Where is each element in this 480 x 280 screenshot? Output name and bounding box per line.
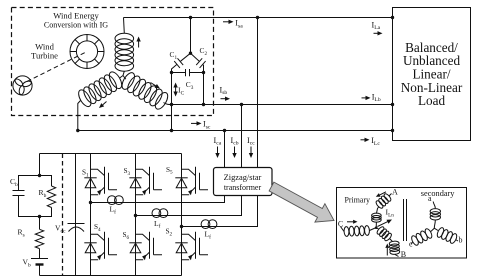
node: right leg on phase b <box>202 103 205 106</box>
wire: phase b line <box>172 104 393 106</box>
svg-text:a: a <box>428 194 432 203</box>
svg-text:C: C <box>338 219 343 228</box>
secondary winding branch c <box>410 228 434 247</box>
capacitor Cb <box>13 176 40 217</box>
arrow into C branch <box>347 220 358 224</box>
node: leg2 midpoint <box>134 214 137 217</box>
inductor Lf (leg 1) <box>108 196 124 205</box>
node: load phase b <box>391 103 394 106</box>
node Icb tap <box>240 103 243 106</box>
wire: inverter leg 3 <box>181 154 183 276</box>
svg-text:Vdc: Vdc <box>55 224 66 235</box>
svg-text:Icb: Icb <box>231 136 239 147</box>
svg-text:S3: S3 <box>124 167 131 177</box>
wire: DC bus top rail <box>40 153 182 155</box>
label+arrow Icb <box>231 136 239 158</box>
node: left leg on phase c <box>170 129 173 132</box>
switch S4 (IGBT with diode) <box>84 232 117 260</box>
node: load phase c <box>391 129 394 132</box>
svg-text:B: B <box>401 250 406 259</box>
node: cap bank left <box>170 71 173 74</box>
node: leg3 midpoint <box>180 225 183 228</box>
switch S3 (IGBT with diode) <box>129 167 162 195</box>
primary winding branch A <box>372 193 393 228</box>
wire: DC bus bottom rail <box>40 275 182 277</box>
svg-text:A: A <box>392 188 398 197</box>
svg-text:Conversion with IG: Conversion with IG <box>44 21 108 30</box>
wire: Ica tap (phase c to transformer) <box>224 131 226 168</box>
svg-text:Lf: Lf <box>205 230 212 241</box>
node Ica tap <box>223 129 226 132</box>
svg-text:Lf: Lf <box>110 205 117 216</box>
svg-text:ILn: ILn <box>386 208 395 219</box>
svg-text:Primary: Primary <box>345 195 370 204</box>
svg-text:C2: C2 <box>200 46 208 57</box>
switch S5 (IGBT with diode) <box>175 167 208 195</box>
label: Wind Turbine <box>31 42 58 61</box>
svg-text:ILa: ILa <box>372 20 381 31</box>
arrow+label Isa <box>223 19 243 30</box>
arrow on phase-a winding <box>136 37 140 48</box>
wire: DC link vertical <box>75 154 77 276</box>
switch S1 (IGBT with diode) <box>84 167 117 195</box>
svg-text:ILc: ILc <box>371 136 380 147</box>
capacitor C2 (right diagonal) <box>191 53 206 72</box>
svg-text:Isa: Isa <box>235 19 243 30</box>
node: cap bank right <box>202 71 205 74</box>
node: load phase a <box>391 16 394 19</box>
wire: inverter leg 1 <box>90 154 92 276</box>
label: Wind Energy Conversion with IG <box>44 11 108 30</box>
svg-text:Turbine: Turbine <box>31 51 58 61</box>
svg-text:Isb: Isb <box>220 85 228 96</box>
svg-text:Wind Energy: Wind Energy <box>53 11 99 21</box>
dashed box: wind energy conversion system <box>12 8 214 116</box>
induction generator IG (slip-ring machine symbol) <box>70 35 104 69</box>
node: phase c start <box>76 129 79 132</box>
svg-text:Zigzag/star: Zigzag/star <box>224 173 262 182</box>
primary winding branch B <box>376 226 400 257</box>
svg-text:transformer: transformer <box>224 183 262 192</box>
node: cap bank top <box>189 52 192 55</box>
node: battery branch mid <box>38 215 41 218</box>
svg-text:Vb: Vb <box>23 258 31 269</box>
wire: Icc tap (phase a to transformer) <box>257 18 259 168</box>
switch S6 (IGBT with diode) <box>129 232 162 260</box>
secondary winding branch b <box>434 227 458 245</box>
svg-text:S2: S2 <box>166 228 173 238</box>
secondary winding branch a <box>430 202 440 229</box>
svg-text:Rs: Rs <box>18 228 25 239</box>
svg-text:Ica: Ica <box>214 136 222 147</box>
dashed separator line <box>62 154 64 276</box>
wire: inverter leg 2 <box>135 154 137 276</box>
svg-text:Isc: Isc <box>203 120 211 131</box>
svg-text:secondary: secondary <box>421 189 455 198</box>
arrow into B branch <box>385 244 389 256</box>
svg-text:S1: S1 <box>82 169 89 179</box>
node: battery branch top <box>38 174 41 177</box>
inductor Lf (leg 3) <box>201 220 217 229</box>
inductor Lf (leg 2) <box>152 209 168 218</box>
resistor Rb <box>40 176 56 217</box>
svg-text:Load: Load <box>418 93 446 108</box>
node: left leg on phase b <box>170 103 173 106</box>
switch S2 (IGBT with diode) <box>175 232 208 260</box>
wire: phase a line <box>124 17 393 19</box>
winding phase-a (vertical coil) <box>115 18 134 76</box>
node Icc tap <box>256 16 259 19</box>
gray detail arrow (transformer to winding detail) <box>269 182 334 222</box>
svg-text:IC: IC <box>178 86 185 97</box>
svg-text:S4: S4 <box>94 223 101 233</box>
dashed shaft line from turbine to generator <box>27 52 87 82</box>
arrow on phase-c winding <box>99 102 107 109</box>
svg-text:Lf: Lf <box>154 219 161 230</box>
resistor Rs <box>35 229 43 248</box>
transformer core lines <box>404 199 407 241</box>
wire: transformer leg b stub <box>136 196 242 216</box>
svg-text:ILb: ILb <box>372 92 381 103</box>
arrow into A branch <box>376 192 386 197</box>
box: Zigzag/star transformer <box>214 168 273 196</box>
arrow ILn <box>378 220 393 227</box>
wire: capacitor bank feeder from phase a <box>190 18 192 54</box>
node: leg1 midpoint <box>89 201 92 204</box>
wire: cap left leg down to phase c <box>171 73 173 131</box>
svg-text:b: b <box>459 236 463 245</box>
capacitor Vdc (polarized) <box>68 224 85 232</box>
arrow on phase-b winding <box>151 83 161 89</box>
wire: battery branch vertical <box>39 154 41 276</box>
load box: Balanced/Unblanced Linear/Non-Linear Load <box>393 8 471 141</box>
winding phase-c (left coil) <box>76 70 124 131</box>
arrow+label Isb <box>220 85 231 101</box>
box: winding detail <box>337 188 467 259</box>
svg-text:Icc: Icc <box>247 136 255 147</box>
arrow Ic (double headed) <box>173 83 177 97</box>
wire: transformer leg c stub <box>182 196 258 227</box>
label+arrow Icc <box>247 136 255 158</box>
node on phase a <box>189 16 192 19</box>
arrow+label Isc <box>191 120 211 131</box>
primary winding branch C <box>341 225 377 236</box>
wire: cap right leg down to phase b <box>203 73 205 105</box>
wire: Icb tap (phase b to transformer) <box>241 105 243 168</box>
node: primary star point <box>375 226 378 229</box>
svg-text:C1: C1 <box>170 50 178 61</box>
svg-text:c: c <box>409 240 413 249</box>
svg-text:Rb: Rb <box>39 188 47 199</box>
wire: transformer leg a stub <box>91 196 225 203</box>
svg-text:Cb: Cb <box>10 177 18 188</box>
svg-text:S6: S6 <box>123 231 130 241</box>
capacitor C1 (left diagonal) <box>172 53 191 72</box>
capacitor C3 (horizontal between nodes) <box>172 69 204 76</box>
arrow+label ILc <box>361 136 381 147</box>
arrow+label ILb <box>362 92 381 103</box>
battery Vb <box>31 259 48 265</box>
wire: phase c line <box>78 130 393 132</box>
svg-text:S5: S5 <box>166 166 173 176</box>
winding phase-b (right coil) <box>120 71 172 111</box>
label+arrow Ica <box>214 136 222 158</box>
arrow+label ILa <box>372 20 383 35</box>
wind turbine rotor (fan) <box>13 76 32 95</box>
svg-text:C3: C3 <box>186 80 194 91</box>
